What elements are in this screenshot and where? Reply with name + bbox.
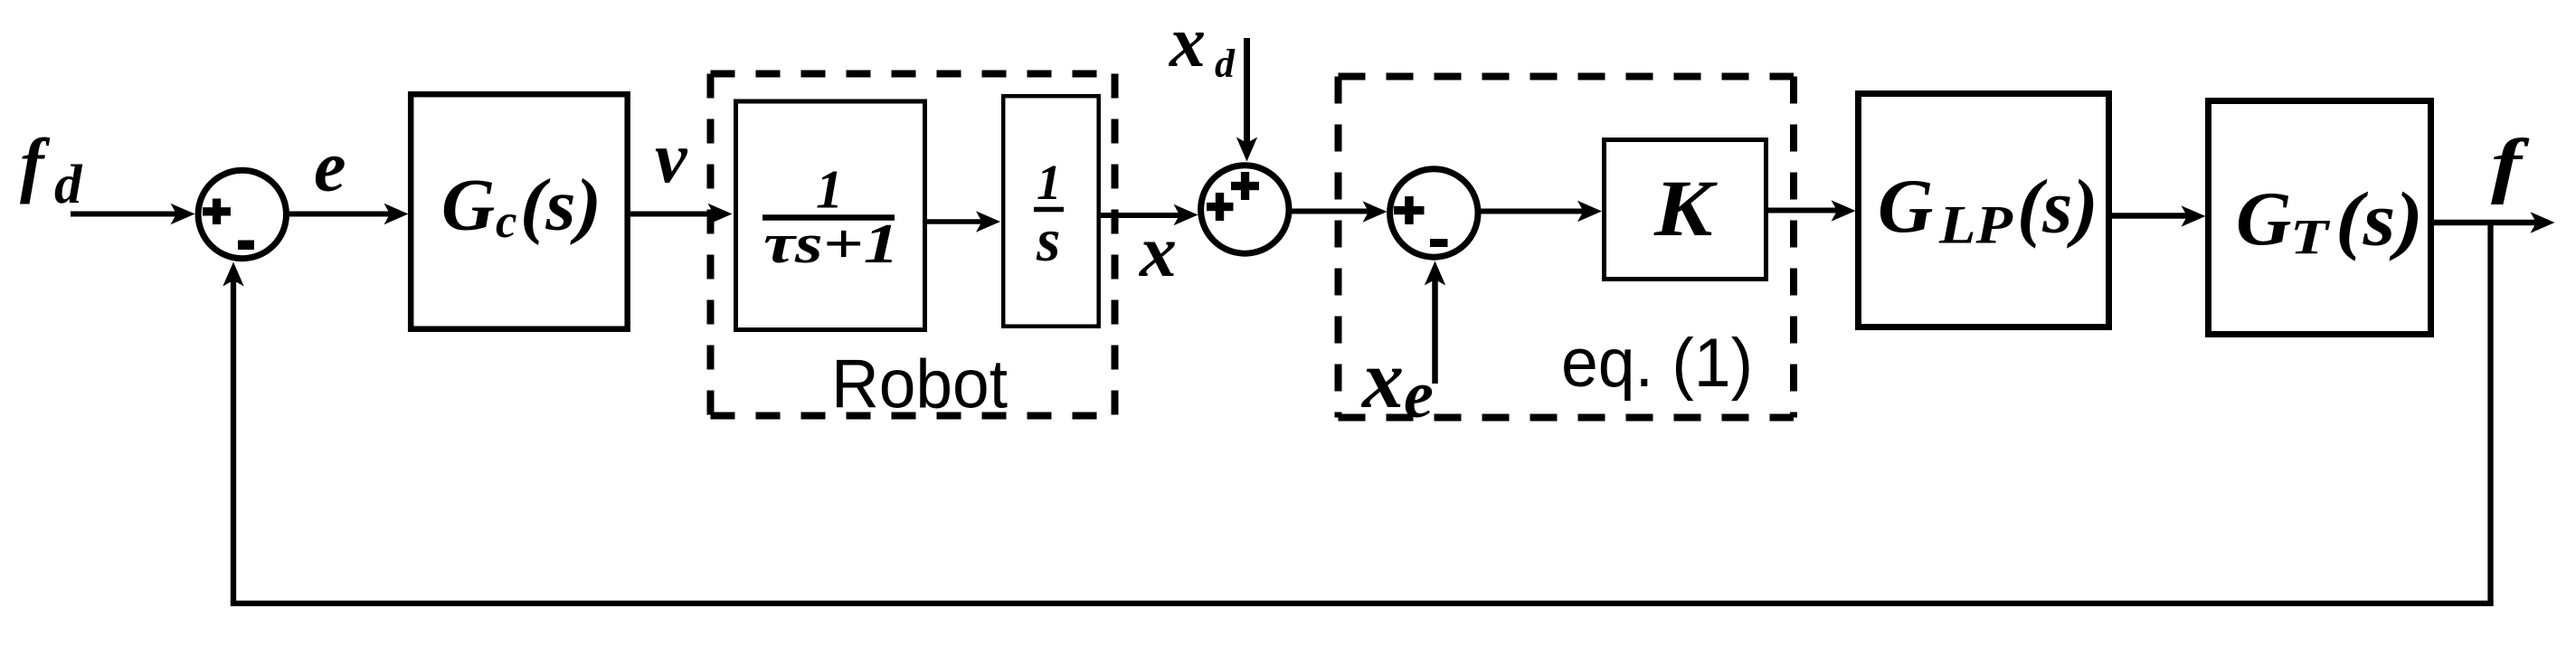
wire feedback branch down [2487, 220, 2493, 606]
arrowhead into Gc [384, 204, 409, 224]
wire 1/(tau s+1) to 1/s [927, 219, 983, 224]
summing junction S2 [1201, 166, 1289, 253]
arrowhead into block 1/(tau s+1) [708, 204, 733, 224]
arrowhead into GT [2182, 205, 2206, 226]
arrowhead into S2 top [1236, 138, 1257, 162]
block GLP(s) [1859, 94, 2109, 327]
block GT(s) [2209, 101, 2431, 335]
svg-text:x: x [1360, 333, 1404, 425]
wire feedback up to S1 [231, 278, 236, 606]
label f_d [20, 126, 83, 216]
svg-text:v: v [655, 119, 688, 198]
arrowhead into summing junction S1 [171, 204, 195, 224]
svg-text:(s): (s) [2335, 177, 2423, 262]
svg-text:1: 1 [816, 160, 843, 220]
block 1/(tau s+1) [736, 101, 925, 330]
svg-text:G: G [1878, 164, 1933, 249]
arrowhead into GLP [1832, 200, 1856, 221]
svg-text:c: c [496, 195, 517, 248]
block 1/s [1003, 96, 1099, 327]
svg-text:s: s [1036, 205, 1060, 274]
svg-text:e: e [1404, 358, 1434, 432]
arrowhead into S3 bottom [1425, 261, 1445, 286]
block Gc(s) [411, 94, 628, 329]
svg-text:eq. (1): eq. (1) [1561, 325, 1753, 402]
svg-text:d: d [1215, 42, 1236, 86]
wire S1 to Gc [289, 212, 393, 217]
svg-text:LP: LP [1938, 195, 2014, 255]
svg-text:(s): (s) [2017, 165, 2098, 250]
svg-text:x: x [1169, 3, 1206, 82]
arrowhead into S2 [1174, 204, 1198, 225]
wire Gc to Robot block [630, 212, 714, 217]
label GLP(s) [1878, 164, 2098, 255]
wire x_d down to S2 [1244, 38, 1250, 143]
svg-text:G: G [2236, 176, 2291, 261]
dashed box Robot [711, 74, 1115, 416]
svg-text:1: 1 [1037, 155, 1062, 210]
wire 1/s to S2 [1101, 213, 1182, 218]
arrowhead into 1/s [976, 211, 1000, 232]
wire: f_d input [71, 212, 178, 217]
wire GLP to GT [2112, 213, 2188, 219]
svg-text:T: T [2290, 210, 2331, 265]
label Gc(s) [441, 164, 601, 249]
svg-text:K: K [1653, 165, 1719, 253]
svg-text:Robot: Robot [831, 346, 1008, 423]
svg-text:G: G [441, 164, 495, 246]
arrowhead into S1 bottom [223, 262, 243, 287]
wire S2 to S3 [1292, 209, 1369, 214]
svg-text:(s): (s) [520, 164, 601, 246]
label GT(s) [2236, 176, 2423, 265]
fraction 1/(tau s+1) [762, 160, 899, 276]
arrowhead output f [2531, 212, 2555, 232]
summing junction S1 [198, 170, 286, 258]
wire GT to output f [2434, 220, 2538, 226]
fraction 1/s [1034, 155, 1064, 274]
wire feedback bottom rail [231, 601, 2494, 606]
wire K to GLP [1765, 208, 1838, 213]
dashed box eq. (1) [1339, 77, 1795, 418]
svg-text:d: d [54, 155, 83, 215]
svg-text:e: e [314, 128, 346, 207]
svg-text:τs+1: τs+1 [763, 213, 899, 275]
svg-text:x: x [1139, 210, 1177, 292]
label x_d [1169, 3, 1236, 86]
arrowhead into S3 [1363, 201, 1387, 222]
arrowhead into K [1577, 201, 1602, 222]
block K [1605, 140, 1766, 280]
label x_e [1360, 333, 1434, 432]
wire x_e up to S3 [1432, 278, 1438, 384]
wire S3 to K [1481, 209, 1585, 214]
summing junction S3 [1390, 169, 1478, 257]
